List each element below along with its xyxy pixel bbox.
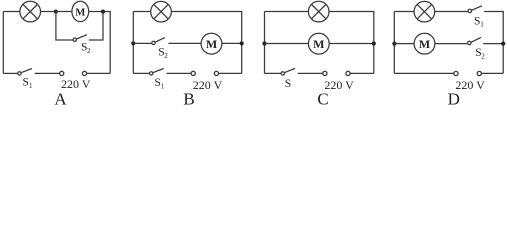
wire: S1 (B) to battery left terminal [167,72,192,74]
svg-text:B: B [183,90,194,106]
battery terminal right (B) [214,71,218,75]
wire: S2 (D) lever to node d2 [483,43,503,45]
svg-text:220 V: 220 V [324,78,354,92]
battery terminal right (C) [346,71,350,75]
switch S (C) lever [284,68,295,72]
wire: node a1 to motor M (A) [56,11,72,13]
wire: A bottom-left to switch S1 [3,72,17,74]
motor M (D) [414,33,435,54]
wire: motor M (C) to node c2 [329,43,374,45]
wire: battery right terminal to B bottom-right corner [219,72,242,74]
wire: lamp D to switch S1 (D) [435,11,468,13]
wire: motor M (D) to switch S2 (D) [435,43,468,45]
switch S2 (B) lever [155,38,165,43]
switch S2 (B) pivot [152,41,155,44]
wire: lever S2 (B) to motor M (B) [168,42,201,44]
wire: B top-left segment to lamp [133,11,150,13]
wire: S (C) to battery left terminal [298,72,323,74]
switch S1 (A) lever [21,69,32,73]
wire: A top-left segment to lamp [3,11,20,13]
wire: A branch right segment up to node a2 [89,14,103,40]
motor M (B) [201,33,222,54]
wire: C bottom-left to switch S [265,72,282,74]
svg-text:2: 2 [87,47,91,55]
battery terminal left (C) [323,71,327,75]
wire: C top-left segment to lamp [265,11,309,13]
node d1 (junction dot left) [392,42,396,46]
battery terminal right (A) [82,71,86,75]
wire: C left vertical [264,12,266,74]
node a2 (junction dot) [101,10,105,14]
wire: B bottom-left to switch S1 (B) [133,72,149,74]
motor M (C) [308,33,329,54]
wire: S1 to battery left terminal (A) [35,72,60,74]
switch S1 (B) pivot [150,72,153,75]
switch S (C) pivot [281,72,284,75]
svg-text:S: S [285,78,291,90]
wire: lamp A to node a1 [41,11,56,13]
node c1 (junction dot left) [262,41,266,45]
lamp D (circle with X) [414,1,435,22]
wire: motor M (B) to node b2 [222,42,242,44]
wire: lamp B to B top-right corner, right vertical down [171,12,241,74]
motor M (A) [72,1,89,21]
switch S2 (D) pivot [468,41,471,44]
switch S1 (D) lever [471,6,482,11]
wire: battery right terminal to A bottom-right corner [87,72,111,74]
svg-text:1: 1 [161,82,165,90]
switch S2 (D) lever [471,37,481,42]
wire: lamp C to C top-right corner, right vertical down [329,12,374,74]
lamp A (circle with X) [20,1,41,22]
node b1 (junction dot left) [131,41,135,45]
svg-text:1: 1 [29,82,33,90]
switch S2 (A) pivot [73,38,76,41]
switch S1 (D) pivot [468,9,471,12]
svg-text:M: M [206,37,217,51]
switch S1 (A) pivot [18,72,21,75]
node c2 (junction dot right) [372,41,376,45]
svg-text:2: 2 [481,52,485,60]
wire: D bottom wire to battery left terminal [394,72,454,74]
switch S1 (B) lever [153,69,164,73]
wire: A left vertical [2,12,4,74]
svg-text:M: M [313,37,324,51]
svg-text:2: 2 [164,52,168,60]
svg-text:C: C [317,90,328,106]
wire: S1 (D) to D top-right corner, right vertical down [484,12,503,74]
battery terminal left (A) [60,71,64,75]
battery terminal left (D) [454,71,458,75]
switch S2 (A) lever [76,35,87,39]
svg-text:M: M [419,37,430,51]
svg-text:220 V: 220 V [193,78,223,92]
battery terminal right (D) [477,71,481,75]
node b2 (junction dot right) [240,41,244,45]
lamp B (circle with X) [151,1,172,22]
wire: node b1 to switch S2 (B) [133,42,152,44]
wire: battery right terminal to D bottom-right corner [481,72,503,74]
wire: motor M (A) to node a2 [89,11,103,13]
node a1 (junction dot) [54,10,58,14]
node d2 (junction dot right) [501,42,505,46]
wire: node a2 to A top-right corner, right vertical down [103,12,110,74]
svg-text:M: M [75,7,85,18]
battery terminal left (B) [191,71,195,75]
svg-text:1: 1 [480,21,484,29]
svg-text:D: D [448,90,460,106]
wire: A parallel branch left drop from node a1 [56,12,73,40]
wire: D top-left segment to lamp [394,11,414,13]
wire: node c1 to motor M (C) [265,43,309,45]
wire: node d1 to motor M (D) [394,43,414,45]
wire: B left vertical [132,12,134,74]
svg-text:S: S [23,77,29,89]
lamp C (circle with X) [308,1,329,22]
wire: D left vertical [393,12,395,74]
svg-text:A: A [54,90,67,106]
wire: battery right terminal to C bottom-right corner [350,72,374,74]
